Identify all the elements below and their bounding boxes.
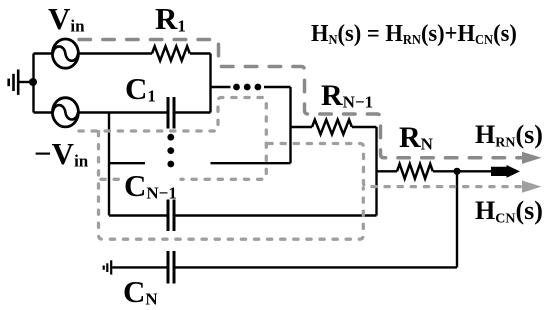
wire (CN to output down-wire) — [176, 266, 458, 268]
label -Vin — [34, 136, 88, 172]
output arrow (solid black) — [491, 165, 520, 178]
label C1 — [125, 71, 156, 107]
wire (top rail left of source) — [34, 52, 53, 54]
dotted path HCN part B (to output arrow) — [268, 144, 521, 187]
label RN-1 — [321, 79, 373, 113]
label CN — [123, 274, 158, 310]
wire (node 1 middle tap to dots) — [211, 86, 231, 88]
wire (node 2 to R[N-1]) — [291, 126, 313, 128]
wire (top rail to R1) — [78, 52, 152, 54]
wire (node 3 vertical) — [375, 127, 377, 216]
dotted path HCN part A (inner capacitor loop) — [79, 98, 266, 180]
resistor RN — [397, 164, 433, 179]
wire (node 2 vertical) — [289, 87, 291, 163]
dashed path HRN (resistor chain highlight) — [79, 40, 521, 158]
node (output junction dot) — [453, 168, 460, 175]
dotted path HCN part C (outer capacitor loop) — [99, 132, 364, 240]
label CN-1 — [124, 168, 177, 204]
wire (node 3 to RN) — [377, 170, 398, 172]
arrowhead HCN (gray) — [522, 181, 542, 193]
wire (left capacitor rail vertical) — [108, 113, 110, 216]
label R1 — [155, 1, 186, 37]
capacitor CN-1 — [168, 200, 174, 232]
wire (input rail vertical) — [32, 54, 34, 113]
wire (C1 to node 1) — [176, 111, 211, 113]
wire (dots to node 2) — [264, 86, 291, 88]
equation HN(s) = HRN(s)+HCN(s) — [311, 19, 517, 48]
source V2 -Vin — [52, 98, 78, 127]
capacitor C1 — [168, 97, 174, 129]
wire (RN to output node) — [433, 170, 494, 172]
node A (input junction dot) — [29, 78, 37, 86]
wire (output node down to CN) — [456, 171, 458, 267]
wire (R1 to node 1) — [190, 52, 211, 54]
resistor RN-1 — [312, 120, 352, 135]
wire (intermediate cap input stub) — [109, 162, 145, 164]
wire (bottom rail left of source) — [34, 111, 53, 113]
wire (bottom rail to C1) — [78, 111, 166, 113]
wire (intermediate cap output stub) — [211, 162, 291, 164]
label RN — [399, 121, 433, 155]
label HCN(s) — [475, 196, 543, 226]
dotted path HCN part A2 (left piece behind CN-1 label) — [101, 178, 122, 181]
resistor R1 — [152, 46, 190, 60]
label HRN(s) — [475, 120, 543, 150]
wire (rail to CN-1) — [109, 214, 167, 216]
node (ellipsis dots horizontal) — [233, 84, 261, 91]
node (ellipsis dots vertical) — [167, 134, 174, 168]
label Vin — [48, 1, 85, 37]
ground — [9, 70, 34, 95]
wire (node 1 vertical) — [209, 54, 211, 113]
wire (CN-1 to node 3) — [176, 214, 377, 216]
ground 2 (CN ground, small) — [104, 260, 112, 274]
wire (ground 2 to CN) — [112, 266, 166, 268]
arrowhead HRN (gray) — [522, 152, 542, 164]
source V1 Vin — [52, 39, 78, 68]
wire (RN-1 to node 3) — [352, 126, 377, 128]
capacitor CN — [168, 251, 174, 284]
